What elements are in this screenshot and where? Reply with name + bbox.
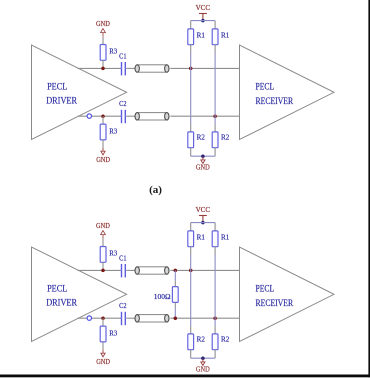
svg-text:C2: C2 (119, 99, 127, 108)
svg-text:R3: R3 (109, 328, 117, 337)
op-amp U1 PECL driver triangle (32, 45, 127, 140)
svg-text:R3: R3 (109, 47, 117, 56)
resistor R1 (right) (212, 223, 229, 255)
resistor R1 (left) (188, 21, 205, 53)
svg-text:C1: C1 (119, 254, 127, 263)
svg-text:GND: GND (96, 358, 110, 366)
capacitor C1 (119, 254, 127, 278)
svg-text:GND: GND (196, 366, 210, 374)
svg-text:VCC: VCC (196, 4, 211, 12)
svg-text:(a): (a) (149, 184, 162, 196)
ground GND (termination rail) (196, 358, 210, 373)
svg-text:GND: GND (96, 20, 110, 28)
wire VCC rail (191, 222, 215, 224)
inversion bubble on driver (87, 114, 91, 118)
power VCC (196, 4, 211, 21)
ground GND (driver top R3) (96, 20, 110, 37)
svg-text:PECL: PECL (47, 283, 67, 293)
wire T2 to receiver (170, 317, 239, 319)
svg-text:DRIVER: DRIVER (46, 95, 77, 105)
wire T1 to receiver (170, 269, 239, 271)
ground GND (driver bottom R3) (96, 148, 110, 164)
svg-text:R2: R2 (221, 133, 230, 142)
node junction top-line/left-chain (189, 269, 193, 273)
wire C2 to T2 (127, 317, 135, 319)
svg-text:100Ω: 100Ω (154, 292, 171, 301)
svg-text:R1: R1 (221, 233, 230, 242)
svg-text:GND: GND (96, 222, 110, 230)
wire VCC rail (191, 20, 215, 22)
node junction bottom-line/right-chain (213, 316, 217, 320)
transmission line T1 (coax) (135, 267, 169, 274)
power VCC (196, 206, 211, 223)
svg-text:PECL: PECL (47, 81, 67, 91)
wire C1 to T1 (127, 269, 135, 271)
wire driver bottom output (78, 317, 121, 319)
transmission line T2 (coax) (135, 113, 169, 120)
svg-text:R2: R2 (197, 335, 206, 344)
resistor R3 (driver top) (100, 239, 117, 271)
transmission line T2 (coax) (135, 315, 169, 322)
resistor R3 (driver bottom) (100, 318, 117, 349)
svg-text:VCC: VCC (196, 206, 211, 214)
svg-text:C2: C2 (119, 301, 127, 310)
svg-text:RECEIVER: RECEIVER (256, 96, 294, 106)
resistor R1 (right) (212, 21, 229, 53)
wire GND rail (191, 357, 215, 359)
node junction driver-bottom/R3 (101, 114, 105, 118)
resistor R2 (left) (188, 124, 205, 156)
wire right chain mid (214, 255, 216, 327)
transmission line T1 (coax) (135, 65, 169, 72)
wire GND rail (191, 155, 215, 157)
resistor R1 (left) (188, 223, 205, 255)
node junction driver-top/R3 (101, 67, 105, 71)
svg-text:R1: R1 (197, 31, 206, 40)
capacitor C1 (119, 52, 127, 76)
node junction driver-top/R3 (101, 269, 105, 273)
svg-text:R3: R3 (109, 126, 117, 135)
svg-text:GND: GND (196, 164, 210, 172)
op-amp U2 PECL receiver triangle (240, 45, 335, 140)
node junction bottom-line/R100 (174, 316, 178, 320)
svg-text:R1: R1 (221, 31, 230, 40)
wire driver top output (78, 67, 121, 69)
wire driver top output (78, 269, 121, 271)
svg-text:GND: GND (96, 156, 110, 164)
wire driver bottom output (78, 115, 121, 117)
inversion bubble on driver (87, 316, 91, 320)
node GND rail junction (201, 154, 205, 158)
resistor R2 (left) (188, 326, 205, 358)
svg-text:R1: R1 (197, 233, 206, 242)
ground GND (driver bottom R3) (96, 350, 110, 366)
resistor R2 (right) (212, 326, 229, 358)
resistor R2 (right) (212, 124, 229, 156)
capacitor C2 (119, 301, 127, 325)
op-amp U4 PECL receiver triangle (240, 247, 335, 342)
resistor R3 (driver bottom) (100, 116, 117, 147)
border line right (368, 0, 370, 377)
resistor 100 ohm termination (154, 270, 178, 318)
resistor R3 (driver top) (100, 37, 117, 69)
capacitor C2 (119, 99, 127, 123)
ground GND (driver top R3) (96, 222, 110, 239)
node VCC rail junction (201, 221, 205, 225)
wire T2 to receiver (170, 115, 239, 117)
node junction top-line/left-chain (189, 67, 193, 71)
wire C2 to T2 (127, 115, 135, 117)
svg-text:DRIVER: DRIVER (46, 297, 77, 307)
node VCC rail junction (201, 19, 205, 23)
svg-text:R2: R2 (197, 133, 206, 142)
svg-text:PECL: PECL (256, 82, 275, 92)
svg-text:PECL: PECL (256, 284, 275, 294)
node GND rail junction (201, 356, 205, 360)
wire left chain mid (190, 53, 192, 125)
ground GND (termination rail) (196, 156, 210, 171)
node junction top-line/R100 (174, 269, 178, 273)
op-amp U3 PECL driver triangle (32, 247, 127, 342)
wire left chain mid (190, 255, 192, 327)
wire T1 to receiver (170, 67, 239, 69)
wire C1 to T1 (127, 67, 135, 69)
svg-text:C1: C1 (119, 52, 127, 61)
border bar bottom (0, 375, 370, 378)
node junction driver-bottom/R3 (101, 316, 105, 320)
wire right chain mid (214, 53, 216, 125)
node junction bottom-line/right-chain (213, 114, 217, 118)
svg-text:R2: R2 (221, 335, 230, 344)
svg-text:R3: R3 (109, 249, 117, 258)
svg-text:RECEIVER: RECEIVER (256, 298, 294, 308)
